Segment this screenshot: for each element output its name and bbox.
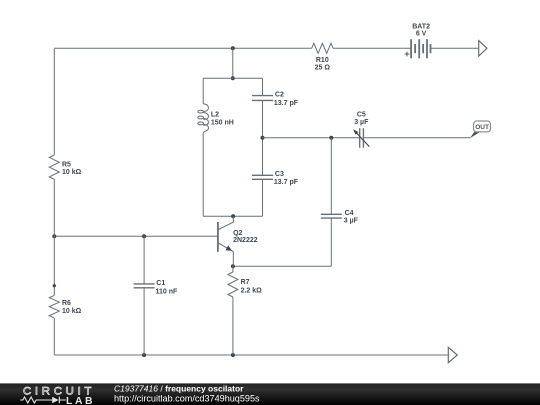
wire top rail right segment (BAT2 negative terminal to flag) bbox=[431, 47, 479, 49]
CircuitLab logo resistor-diode squiggle bbox=[20, 397, 66, 404]
svg-text:R7: R7 bbox=[241, 279, 250, 286]
net flag arrow top right bbox=[479, 41, 487, 57]
svg-text:LAB: LAB bbox=[66, 396, 95, 405]
capacitor C1 bbox=[134, 284, 155, 288]
junction output node on tank bbox=[261, 136, 265, 140]
junction emitter node bbox=[231, 264, 235, 268]
svg-text:C4: C4 bbox=[345, 210, 354, 217]
svg-text:10 kΩ: 10 kΩ bbox=[62, 169, 82, 176]
svg-text:R6: R6 bbox=[62, 300, 71, 307]
wire tank left side upper bbox=[202, 78, 204, 104]
resistor R5 bbox=[49, 155, 59, 179]
wire C4 branch upper bbox=[330, 138, 332, 215]
footer bar bbox=[0, 383, 540, 405]
svg-text:R10: R10 bbox=[316, 57, 329, 64]
svg-text:150 nH: 150 nH bbox=[211, 120, 234, 127]
junction C1 tap on base wire bbox=[142, 234, 146, 238]
svg-text:10 kΩ: 10 kΩ bbox=[62, 308, 82, 315]
svg-text:http://circuitlab.com/cd3749hu: http://circuitlab.com/cd3749huq595s bbox=[114, 393, 260, 403]
svg-text:110 nF: 110 nF bbox=[156, 288, 179, 295]
svg-text:13.7 pF: 13.7 pF bbox=[274, 100, 299, 107]
junction top rail / tank bbox=[231, 46, 235, 50]
junction left rail wire joint bbox=[53, 284, 56, 287]
svg-text:25 Ω: 25 Ω bbox=[315, 65, 331, 72]
svg-text:OUT: OUT bbox=[475, 124, 489, 131]
wire output node to C5 bbox=[263, 137, 360, 139]
wire bottom rail (ground net) bbox=[54, 354, 448, 356]
capacitor C5 (variable) bbox=[353, 128, 369, 148]
node OUT flag bbox=[470, 121, 491, 138]
svg-text:3 µF: 3 µF bbox=[344, 218, 359, 225]
svg-text:C5: C5 bbox=[357, 112, 366, 119]
battery plus pin marker bbox=[405, 52, 410, 57]
inductor L2 bbox=[198, 104, 209, 134]
wire from top rail down to tank top bbox=[232, 48, 234, 78]
capacitor C2 bbox=[252, 96, 273, 101]
wire top rail left segment (node V+ to R10) bbox=[54, 47, 311, 49]
svg-text:13.7 pF: 13.7 pF bbox=[274, 179, 299, 186]
wire left rail upper bbox=[53, 48, 55, 155]
battery BAT2 bbox=[411, 39, 430, 58]
svg-text:2.2 kΩ: 2.2 kΩ bbox=[241, 287, 263, 294]
junction tank bottom / collector bbox=[231, 214, 235, 218]
wire C1 upper bbox=[143, 236, 145, 284]
net flag arrow bottom right bbox=[448, 347, 457, 362]
wire left rail lower bbox=[53, 318, 55, 355]
wire tank right side middle bbox=[262, 100, 264, 175]
svg-text:BAT2: BAT2 bbox=[412, 23, 430, 30]
capacitor C3 bbox=[252, 175, 273, 179]
capacitor C4 bbox=[321, 214, 342, 218]
svg-text:R5: R5 bbox=[62, 161, 71, 168]
wire tank right side upper bbox=[262, 78, 264, 95]
wire emitter to R7 bbox=[232, 266, 234, 272]
wire tank left side lower bbox=[202, 134, 204, 217]
junction C4 branch bbox=[329, 136, 333, 140]
wire C5 to OUT flag bbox=[363, 137, 470, 139]
svg-text:6 V: 6 V bbox=[416, 31, 427, 38]
resistor R10 bbox=[312, 43, 333, 53]
transistor Q2 (NPN) bbox=[218, 216, 233, 266]
wire R7 to bottom rail bbox=[232, 297, 234, 355]
junction base wire at left rail bbox=[52, 234, 56, 238]
svg-text:C1: C1 bbox=[156, 280, 165, 287]
wire top rail mid segment (R10 to BAT2 positive terminal) bbox=[333, 47, 411, 49]
svg-text:L2: L2 bbox=[211, 112, 219, 119]
svg-text:C3: C3 bbox=[275, 171, 284, 178]
wire C4 branch lower bbox=[330, 218, 332, 266]
wire emitter node to C4 branch bbox=[233, 265, 331, 267]
wire base node from left rail bbox=[54, 235, 218, 237]
svg-text:2N2222: 2N2222 bbox=[233, 237, 258, 244]
svg-text:C2: C2 bbox=[275, 92, 284, 99]
svg-text:3 µF: 3 µF bbox=[354, 119, 369, 126]
wire tank bottom side bbox=[203, 215, 262, 217]
wire left rail middle bbox=[53, 179, 55, 295]
resistor R7 bbox=[228, 272, 238, 297]
svg-text:C19377416 / frequency oscilato: C19377416 / frequency oscilator bbox=[114, 384, 244, 394]
junction R7 at bottom rail bbox=[231, 353, 235, 357]
junction C1 at bottom rail bbox=[142, 353, 146, 357]
wire C1 lower bbox=[143, 288, 145, 355]
resistor R6 bbox=[49, 295, 59, 318]
junction tank top bbox=[231, 76, 235, 80]
wire tank right side lower bbox=[262, 179, 264, 216]
wire tank top side bbox=[203, 77, 262, 79]
